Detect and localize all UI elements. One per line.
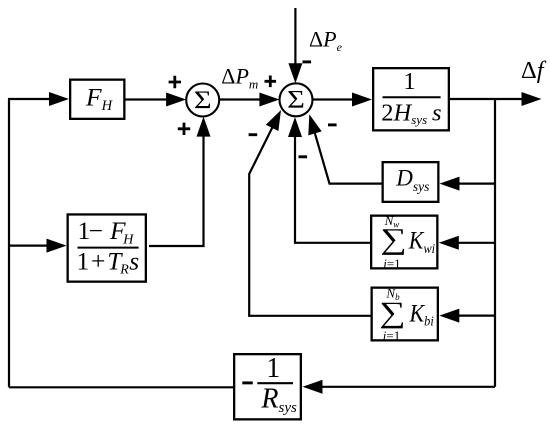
arrowhead Delta f output [522, 92, 542, 106]
arrowhead into K_bi [439, 309, 459, 323]
wire: S2 output to inertia block [313, 98, 363, 100]
minus sign at K_wi vertical input [299, 155, 308, 158]
arrowhead D_sys diag into S2 [308, 114, 321, 135]
wire: Delta P_e drop line [294, 8, 296, 74]
wire: FH output to summer S1 [126, 98, 177, 100]
svg-text:i=1: i=1 [383, 328, 400, 343]
arrowhead K_wi line into S2 bottom [288, 117, 302, 137]
label sum K_bi contents [379, 296, 405, 329]
wire: rail to K_wi input [447, 242, 495, 244]
svg-text:i=1: i=1 [383, 256, 400, 271]
wire: transient gain output up to S1 [149, 127, 204, 247]
minus sign at D_sys diagonal input [328, 123, 337, 126]
arrowhead into inertia block [352, 93, 372, 107]
plus sign at S1 left input [169, 76, 181, 88]
minus sign at Delta P_e input [303, 60, 312, 63]
wire: inertia block output to Delta f arrow [450, 98, 533, 100]
block sum K_wi [371, 216, 437, 269]
svg-text:∑: ∑ [379, 296, 405, 329]
wire: K_wi output up to S2 [295, 126, 370, 243]
wire: left rail to FH box [8, 98, 58, 100]
arrowhead into D_sys [440, 177, 460, 191]
minus sign at K_bi diagonal input [249, 133, 258, 136]
arrowhead K_bi diag into S2 [266, 110, 281, 131]
svg-text:Σ: Σ [287, 86, 305, 114]
plus sign at S1 bottom input [178, 123, 190, 135]
summing junction S2 [280, 83, 313, 116]
arrowhead into R_sys block [303, 380, 323, 394]
wire: K_bi output via left jog up to S2 [249, 124, 370, 315]
wire: rail to K_bi input [449, 315, 496, 317]
wire: rail to D_sys input [448, 183, 495, 185]
svg-text:R: R [119, 263, 129, 278]
svg-text:H: H [122, 232, 134, 247]
label sum K_wi contents [380, 223, 406, 256]
arrowhead into S1 [166, 93, 186, 107]
arrowhead into S2 left [259, 93, 279, 107]
block (1-F_H)/(1+T_R s) [68, 214, 146, 281]
wire: rail bottom to R_sys block input [311, 386, 495, 388]
wire: R_sys block output to left rail [9, 386, 233, 388]
summing junction S1 [186, 84, 219, 117]
arrowhead transient line into S1 bottom [197, 117, 211, 137]
block F_H [70, 80, 124, 119]
svg-text:1: 1 [266, 353, 280, 384]
wire: D_sys output diagonal to S2 [311, 121, 382, 184]
svg-text:+: + [91, 246, 105, 275]
wire: right feedback rail [494, 99, 496, 387]
svg-text:−: − [89, 216, 103, 245]
svg-text:1: 1 [77, 246, 90, 275]
svg-text:1: 1 [403, 68, 415, 95]
block sum K_bi [372, 288, 438, 341]
arrowhead Delta P_e into S2 top [288, 63, 302, 83]
block -1/R_sys [234, 354, 301, 419]
label -1/R_sys [242, 381, 253, 384]
svg-text:s: s [129, 246, 139, 275]
arrowhead into F_H [49, 92, 69, 106]
arrowhead into transient gain block [47, 239, 67, 253]
wire: S1 output to summer S2 (Delta P_m) [220, 98, 271, 100]
svg-text:Σ: Σ [194, 86, 212, 114]
wire: left rail to transient gain block [9, 245, 55, 247]
svg-text:Δf: Δf [521, 57, 547, 84]
plus sign at S2 left input [265, 76, 277, 88]
arrowhead into K_wi [439, 236, 459, 250]
block D_sys [383, 162, 439, 202]
wire: left feedback rail [8, 99, 10, 387]
block 1/(2 H_sys s) [373, 68, 449, 130]
